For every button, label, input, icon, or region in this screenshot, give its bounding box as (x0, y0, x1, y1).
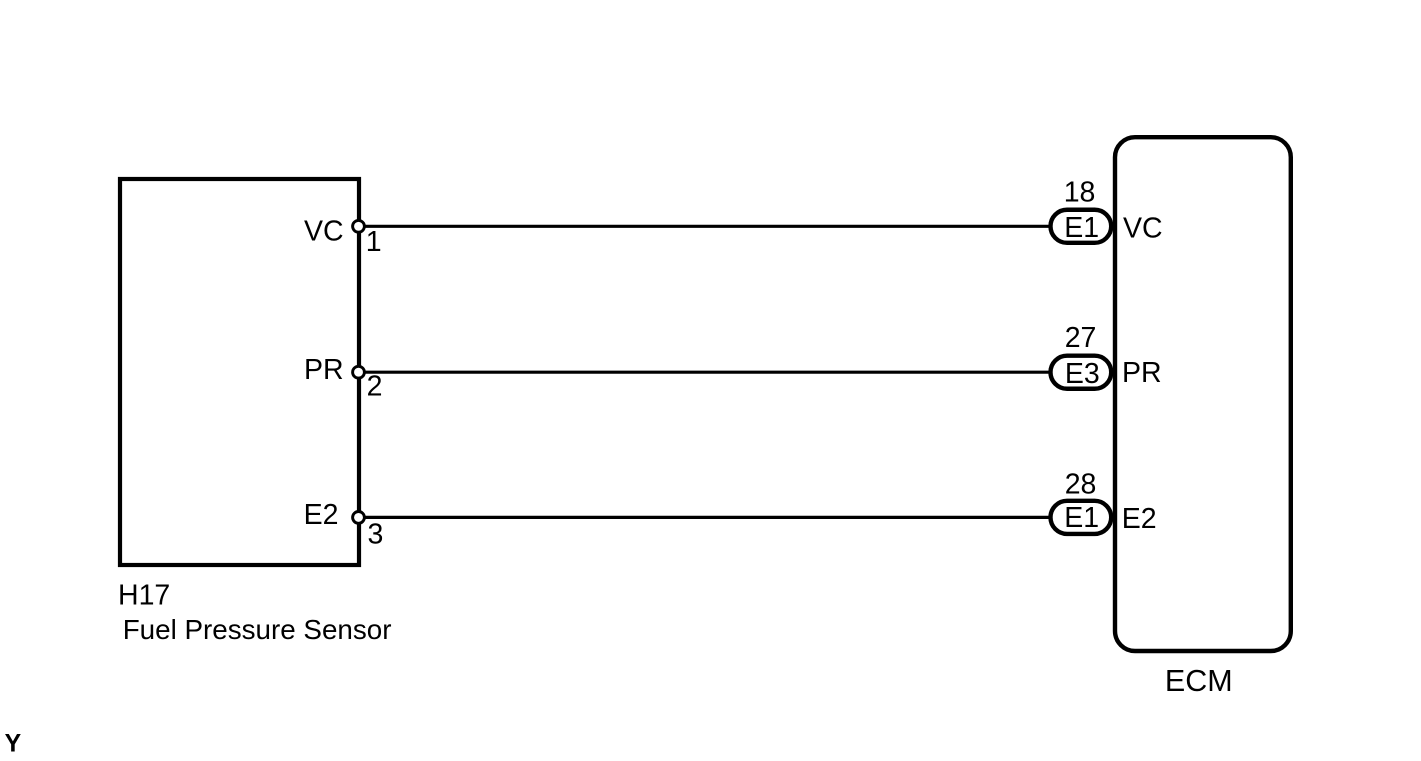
svg-text:Fuel Pressure Sensor: Fuel Pressure Sensor (123, 614, 392, 645)
ECM connector pill E3 pin 27 (1051, 356, 1112, 389)
svg-text:E2: E2 (304, 499, 339, 531)
svg-text:18: 18 (1064, 176, 1096, 208)
wire VC: H17 pin 1 to ECM pin 18 (359, 225, 1053, 228)
ECM box (1115, 137, 1291, 651)
ECM connector pill E1 pin 28 (1051, 501, 1112, 534)
svg-text:PR: PR (304, 354, 344, 386)
svg-text:2: 2 (367, 371, 383, 403)
svg-text:E2: E2 (1122, 503, 1157, 535)
svg-text:1: 1 (366, 226, 382, 258)
svg-text:E1: E1 (1064, 212, 1099, 244)
wire E2: H17 pin 3 to ECM pin 28 (359, 516, 1053, 519)
wire PR: H17 pin 2 to ECM pin 27 (359, 371, 1053, 374)
svg-text:PR: PR (1122, 357, 1162, 389)
svg-text:E1: E1 (1064, 502, 1099, 534)
svg-text:VC: VC (304, 215, 344, 247)
pin 1 terminal circle (353, 220, 365, 232)
pin 3 terminal circle (353, 512, 365, 524)
svg-text:3: 3 (368, 518, 384, 550)
svg-text:VC: VC (1123, 212, 1163, 244)
svg-text:28: 28 (1065, 469, 1097, 501)
ECM connector pill E1 pin 18 (1051, 210, 1112, 243)
svg-text:27: 27 (1065, 322, 1097, 354)
svg-text:H17: H17 (118, 580, 170, 612)
connector H17 Fuel Pressure Sensor box (120, 179, 359, 565)
svg-text:ECM: ECM (1165, 664, 1233, 698)
svg-text:Y: Y (5, 731, 22, 756)
pin 2 terminal circle (353, 366, 365, 378)
svg-text:E3: E3 (1065, 358, 1100, 390)
